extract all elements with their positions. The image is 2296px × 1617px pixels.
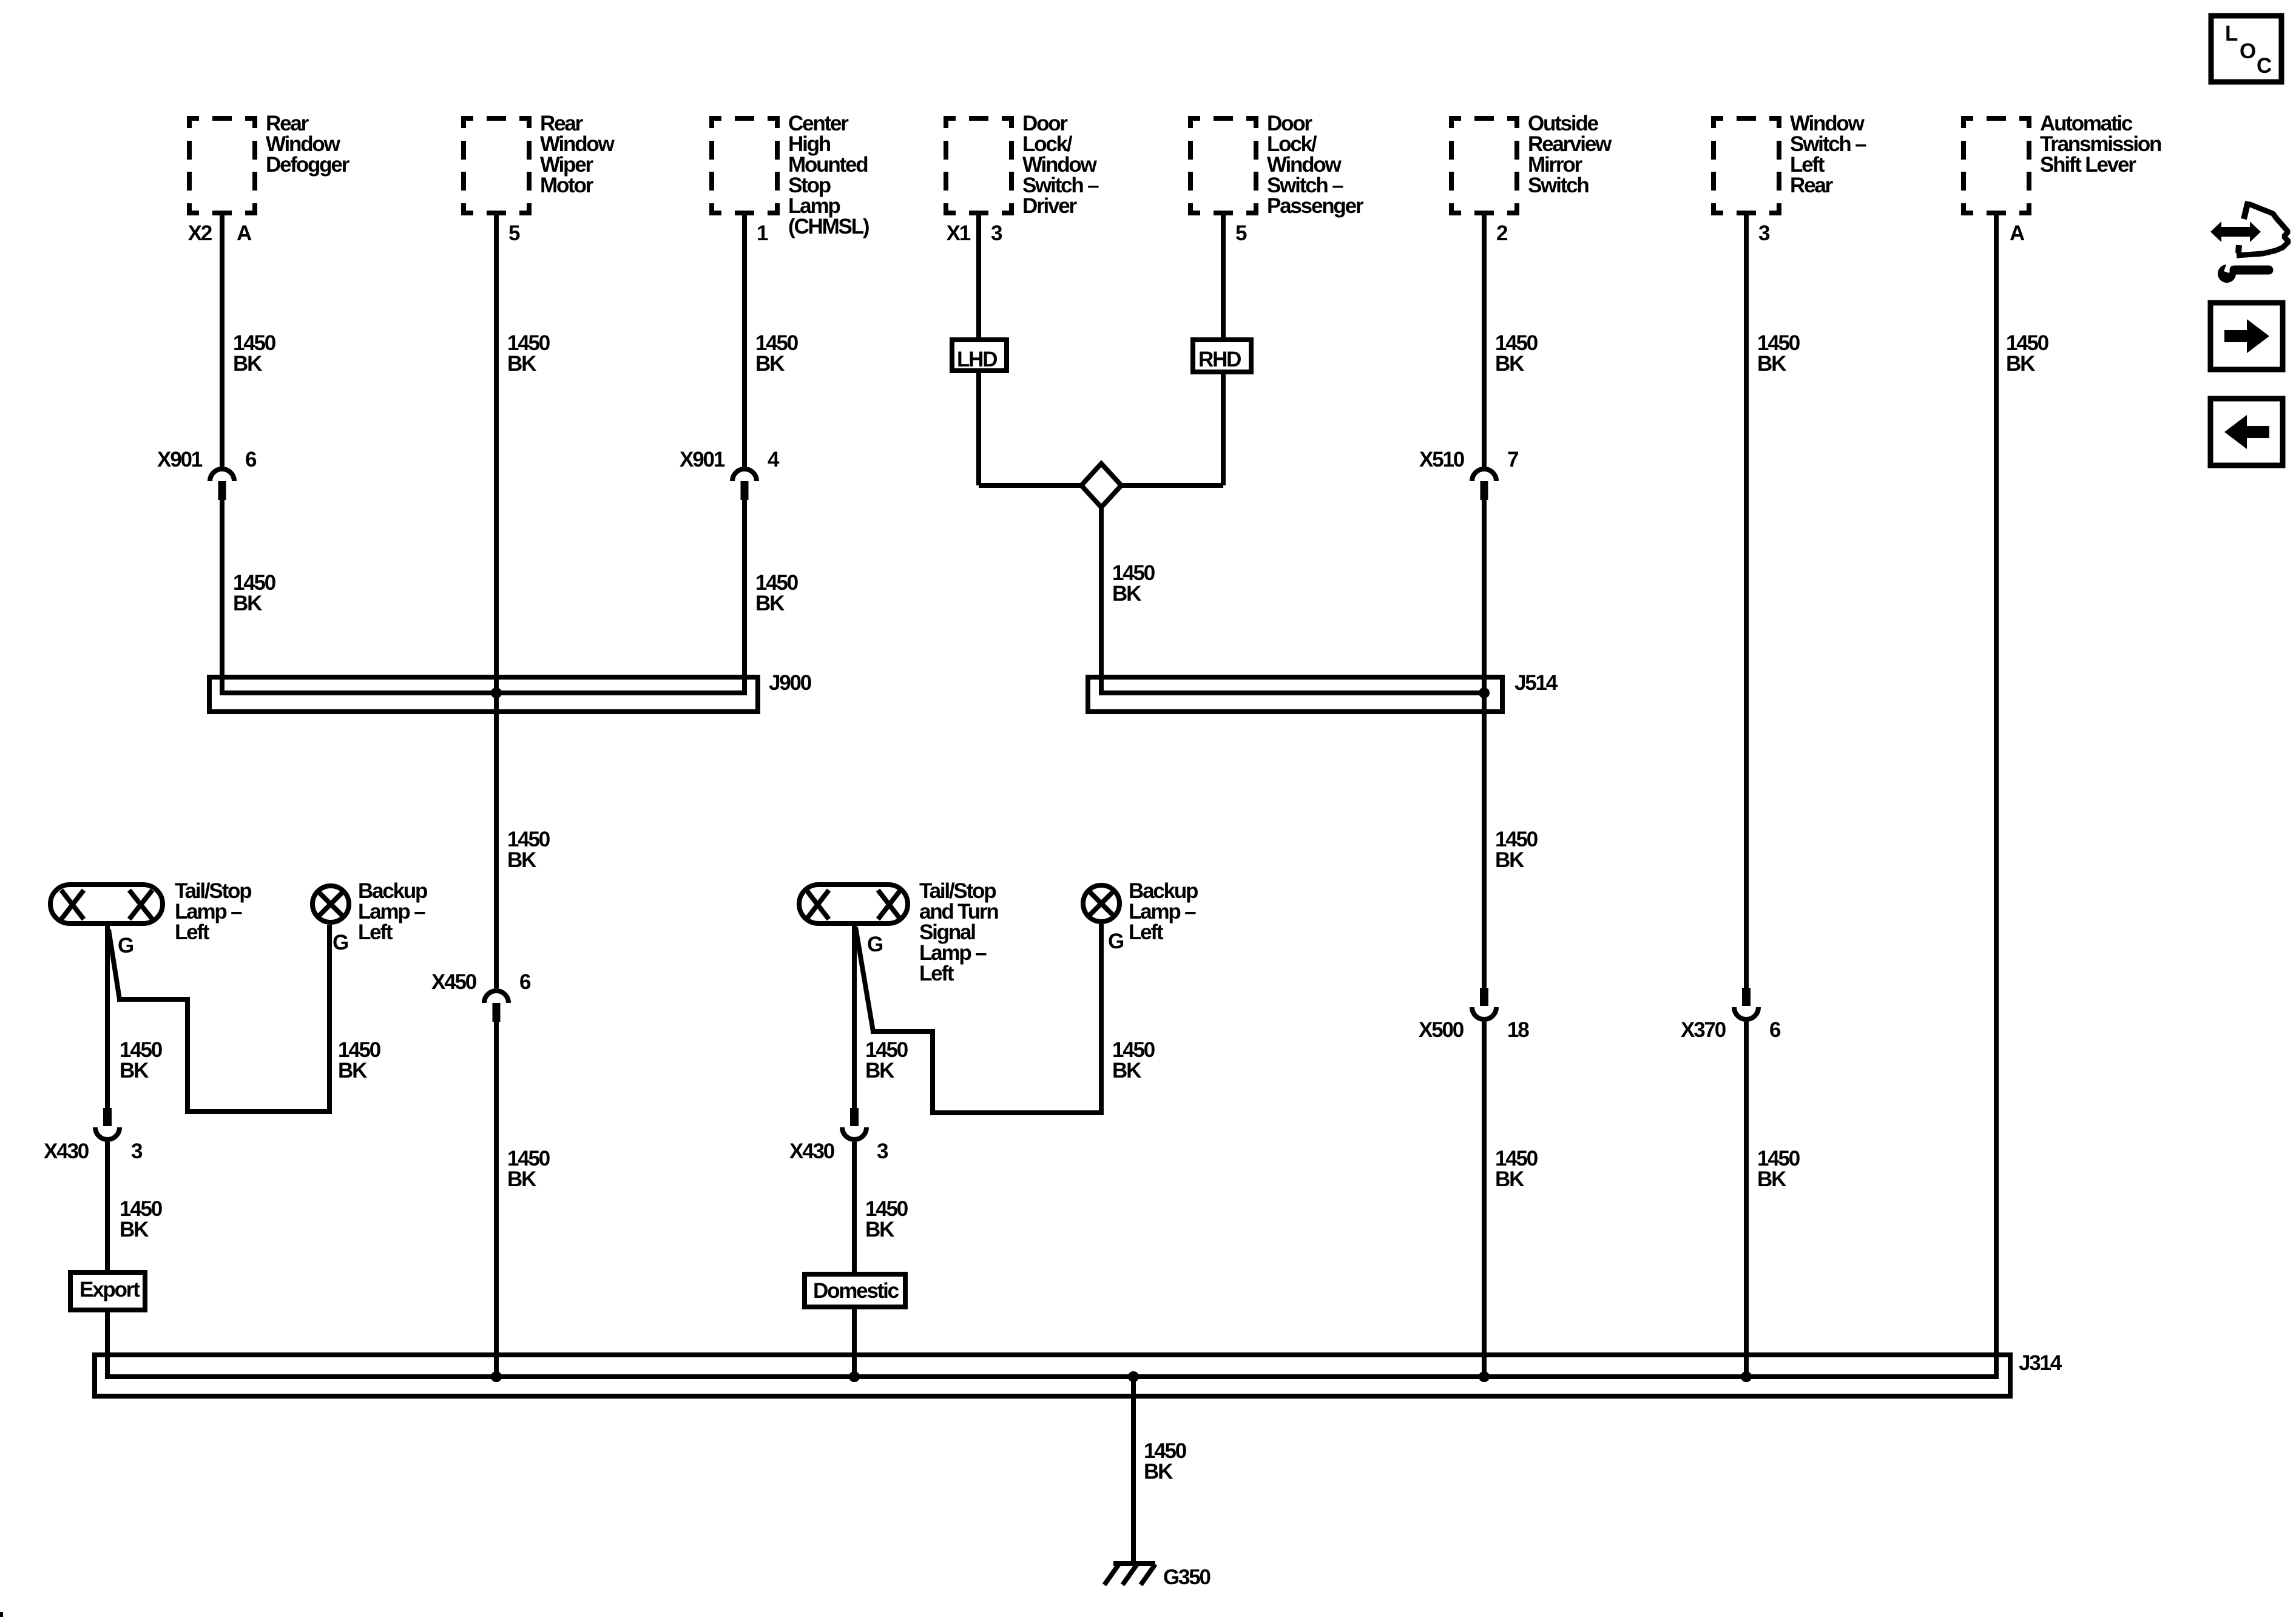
label: Outside Rearview Mirror Switch — [1528, 112, 1612, 197]
svg-text:Shift Lever: Shift Lever — [2040, 153, 2136, 177]
svg-text:5: 5 — [1235, 221, 1247, 245]
lamp: Backup Lamp - Left (domestic) — [1083, 885, 1119, 922]
wire: branch horizontal (domestic) — [871, 1029, 933, 1034]
wire: branch horizontal — [117, 997, 187, 1002]
splice pack J514 housing — [1088, 677, 1502, 712]
label: wire value 1450 BK (mirror lower) — [1495, 1147, 1538, 1191]
label: wire value 1450 BK (window sw) — [1757, 331, 1800, 376]
label: wire value 1450 BK (shift lever) — [2006, 331, 2049, 376]
connector X430 pin 3 (domestic) terminal pin — [850, 1108, 859, 1126]
wire: branch diagonal (domestic) — [856, 927, 873, 1031]
legend: back arrow box — [2210, 399, 2283, 465]
svg-text:A: A — [237, 221, 252, 245]
junction: mirror wire at J314 — [1479, 1371, 1490, 1382]
label: wire value 1450 BK (export lower) — [120, 1197, 163, 1241]
svg-text:BK: BK — [1495, 848, 1524, 872]
svg-text:Defogger: Defogger — [266, 153, 350, 177]
legend: LOC box — [2211, 16, 2281, 82]
connector X510 pin 7 terminal pin — [1481, 481, 1488, 500]
svg-text:Rear: Rear — [1790, 174, 1834, 197]
label: wire value 1450 BK (CHMSL) — [755, 331, 799, 376]
wire: 1450 BK from X450 to J314 — [494, 1022, 499, 1379]
component box: Rear Window Wiper Motor — [461, 116, 532, 215]
label: wire value 1450 BK (backup domestic) — [1112, 1038, 1155, 1082]
svg-text:X901: X901 — [157, 448, 203, 471]
connector X500 pin 18 terminal pin — [1480, 988, 1488, 1006]
component box: Door Lock/Window Switch - Passenger — [1188, 116, 1258, 215]
component box: Rear Window Defogger — [187, 116, 257, 215]
svg-text:Switch: Switch — [1528, 174, 1589, 197]
svg-text:X430: X430 — [789, 1139, 835, 1163]
svg-text:G350: G350 — [1163, 1565, 1211, 1589]
label: wire value 1450 BK (defogger lower) — [233, 571, 276, 615]
label: Door Lock/Window Switch Driver — [1022, 112, 1099, 218]
label: wire value 1450 BK (defogger) — [233, 331, 276, 376]
wire: 1450 BK from tail/turn lamp to X430 — [852, 925, 857, 1108]
option box Export — [70, 1272, 145, 1310]
svg-text:BK: BK — [507, 848, 536, 872]
svg-text:BK: BK — [1144, 1460, 1173, 1484]
wire: branch from tail lamp (diagonal) — [109, 930, 120, 999]
svg-text:G: G — [333, 931, 348, 954]
wire: 1450 BK below RHD — [1221, 372, 1226, 485]
svg-text:1: 1 — [757, 221, 768, 245]
svg-text:C: C — [2257, 54, 2272, 78]
wire: 1450 BK from window switch to X370 — [1744, 214, 1749, 988]
label: Backup Lamp - Left (domestic) — [1129, 879, 1198, 944]
svg-text:4: 4 — [768, 448, 780, 471]
component box: Outside Rearview Mirror Switch — [1449, 116, 1519, 215]
label: wire value 1450 BK (wiper mid) — [507, 828, 550, 872]
wire: 1450 BK to ground G350 — [1131, 1377, 1136, 1564]
junction: ground wire at J314 — [1128, 1371, 1139, 1382]
wire: 1450 BK below LHD — [976, 371, 981, 485]
svg-text:3: 3 — [877, 1139, 888, 1163]
option box Domestic — [805, 1274, 905, 1307]
svg-text:L: L — [2225, 22, 2238, 46]
connector X901 pin 4 terminal pin — [741, 481, 749, 500]
wire: 1450 BK from Export to J314 — [105, 1310, 110, 1379]
wire: 1450 BK from X901 to J900 — [220, 500, 225, 695]
svg-text:G: G — [867, 933, 883, 956]
junction: window switch wire at J314 — [1741, 1371, 1752, 1382]
svg-text:3: 3 — [1758, 221, 1770, 245]
label: wire value 1450 BK (tail lamp) — [120, 1038, 163, 1082]
svg-text:X430: X430 — [44, 1139, 89, 1163]
svg-text:(CHMSL): (CHMSL) — [788, 215, 869, 238]
wire: 1450 BK from backup lamp (domestic) — [1099, 924, 1104, 1115]
wire: 1450 BK from shift lever to J314 — [1994, 214, 1999, 1379]
svg-text:BK: BK — [755, 592, 785, 615]
option box RHD — [1193, 340, 1251, 372]
svg-text:Left: Left — [1129, 920, 1164, 944]
svg-text:Motor: Motor — [540, 174, 594, 197]
label: wire value 1450 BK (domestic lower) — [865, 1197, 908, 1241]
connector X901 pin 6 (female half) — [210, 469, 234, 481]
svg-text:BK: BK — [233, 592, 262, 615]
svg-text:BK: BK — [1495, 352, 1524, 376]
label: wire value 1450 BK (window sw lower) — [1757, 1147, 1800, 1191]
svg-text:BK: BK — [120, 1059, 149, 1082]
splice pack J900 housing — [209, 677, 758, 712]
option box LHD — [952, 340, 1007, 371]
connector X370 pin 6 (female half) — [1734, 1007, 1758, 1019]
junction: wiper wire at J900 — [491, 687, 502, 698]
wire: 1450 BK from X430 to Domestic — [852, 1142, 857, 1274]
label: wire value 1450 BK (mirror) — [1495, 331, 1538, 376]
svg-text:Domestic: Domestic — [813, 1279, 899, 1303]
lamp: Tail/Stop and Turn Signal Lamp - Left (dual filament) — [799, 885, 908, 923]
wire: 1450 BK from driver switch to LHD — [976, 214, 981, 337]
svg-text:6: 6 — [245, 448, 257, 471]
svg-text:RHD: RHD — [1198, 348, 1241, 371]
wire: branch horizontal to backup lamp — [185, 1109, 329, 1114]
svg-text:BK: BK — [2006, 352, 2035, 376]
junction: domestic wire at J314 — [849, 1371, 860, 1382]
label: Rear Window Defogger — [266, 112, 350, 177]
svg-text:Passenger: Passenger — [1267, 194, 1364, 218]
connector X430 pin 3 (domestic) (female half) — [842, 1127, 866, 1139]
label: Tail/Stop and Turn Signal Lamp - Left — [919, 879, 998, 985]
junction: wiper wire at J314 — [491, 1371, 502, 1382]
wire: 1450 BK from CHMSL to X901 — [742, 214, 747, 467]
page corner mark — [0, 1612, 3, 1617]
wire: 1450 BK from Domestic to J314 — [852, 1307, 857, 1379]
label: Automatic Transmission Shift Lever — [2040, 112, 2161, 177]
splice pack J314 housing — [95, 1355, 2010, 1396]
wire: 1450 BK to merge diamond (left) — [979, 483, 1084, 488]
lamp: Tail/Stop Lamp - Left (dual filament) — [50, 885, 163, 923]
label: Tail/Stop Lamp - Left — [175, 879, 251, 944]
svg-text:Export: Export — [79, 1278, 140, 1301]
wire: 1450 BK from mirror switch to X510 — [1482, 214, 1487, 467]
connector X430 pin 3 terminal pin — [103, 1108, 112, 1126]
svg-text:Left: Left — [919, 962, 954, 985]
wire: 1450 BK from X430 to Export — [105, 1142, 110, 1272]
svg-text:BK: BK — [1757, 352, 1786, 376]
label: Door Lock/Window Switch Passenger — [1267, 112, 1364, 218]
connector X430 pin 3 (female half) — [95, 1127, 120, 1139]
svg-text:G: G — [1108, 930, 1124, 953]
svg-text:X1: X1 — [947, 221, 971, 245]
legend: forward arrow box — [2210, 303, 2283, 370]
label: wire value 1450 BK (wiper) — [507, 331, 550, 376]
svg-text:X450: X450 — [431, 970, 477, 994]
svg-text:BK: BK — [865, 1059, 894, 1082]
svg-text:BK: BK — [338, 1059, 367, 1082]
connector X450 pin 6 (female half) — [484, 991, 508, 1003]
svg-text:BK: BK — [233, 352, 262, 376]
lamp: Backup Lamp - Left — [312, 886, 349, 922]
connector X450 pin 6 terminal pin — [493, 1003, 501, 1022]
svg-text:BK: BK — [1112, 1059, 1141, 1082]
label: Backup Lamp - Left — [358, 879, 427, 944]
merge symbol (diamond) — [1081, 464, 1121, 507]
svg-text:BK: BK — [1757, 1167, 1786, 1191]
svg-text:BK: BK — [120, 1218, 149, 1241]
wire: 1450 BK from X901 to J900 — [742, 500, 747, 695]
label: wire value 1450 BK (mirror mid) — [1495, 828, 1538, 872]
svg-text:J514: J514 — [1514, 671, 1558, 695]
label: Window Switch Left Rear — [1790, 112, 1866, 197]
svg-text:BK: BK — [1495, 1167, 1524, 1191]
svg-text:J314: J314 — [2019, 1351, 2062, 1375]
svg-text:BK: BK — [507, 352, 536, 376]
svg-text:BK: BK — [1112, 582, 1141, 606]
wire: branch vertical (domestic) — [930, 1029, 935, 1113]
wire: J900 internal bus — [220, 690, 747, 695]
connector X901 pin 4 (female half) — [732, 469, 757, 481]
label: wire value 1450 BK (tail/turn lamp) — [865, 1038, 908, 1082]
wire: 1450 BK to merge diamond (right) — [1119, 483, 1223, 488]
component box: Window Switch - Left Rear — [1711, 116, 1781, 215]
wire: 1450 BK from defogger to X901 — [220, 214, 225, 467]
label: wire value 1450 BK (ground wire) — [1144, 1439, 1187, 1484]
svg-text:BK: BK — [865, 1218, 894, 1241]
svg-text:7: 7 — [1507, 448, 1518, 471]
wire: branch vertical — [185, 997, 190, 1112]
component box: Automatic Transmission Shift Lever — [1961, 116, 2031, 215]
legend: adjust icon (double arrow, part outline, wrench) — [2210, 201, 2289, 283]
wire: J314 internal bus — [105, 1374, 1999, 1379]
wire: J514 internal bus — [1099, 690, 1484, 695]
svg-text:6: 6 — [1769, 1018, 1781, 1042]
label: Rear Window Wiper Motor — [540, 112, 615, 197]
wire: 1450 BK from X510 through J514 to X500 — [1482, 500, 1487, 988]
svg-text:18: 18 — [1507, 1018, 1529, 1042]
connector X500 pin 18 (female half) — [1472, 1007, 1496, 1019]
svg-text:X510: X510 — [1419, 448, 1465, 471]
label: wire value 1450 BK (CHMSL lower) — [755, 571, 799, 615]
svg-text:BK: BK — [507, 1167, 536, 1191]
wire: 1450 BK from passenger switch to RHD — [1221, 214, 1226, 337]
svg-text:O: O — [2240, 39, 2255, 63]
component box: Center High Mounted Stop Lamp (CHMSL) — [709, 116, 780, 215]
wire: 1450 BK from X500 to J314 — [1482, 1022, 1487, 1379]
wire: 1450 BK from X370 to J314 — [1744, 1022, 1749, 1379]
wire: 1450 BK from wiper motor through J900 to X450 — [494, 214, 499, 988]
svg-text:BK: BK — [755, 352, 785, 376]
wire: branch horizontal to backup lamp (domestic) — [930, 1110, 1101, 1115]
svg-text:LHD: LHD — [957, 348, 997, 371]
junction: mirror wire at J514 — [1479, 687, 1490, 698]
connector X370 pin 6 terminal pin — [1742, 988, 1751, 1006]
svg-text:5: 5 — [508, 221, 520, 245]
label: wire value 1450 BK (wiper lower) — [507, 1147, 550, 1191]
connector X510 pin 7 (female half) — [1472, 469, 1496, 481]
svg-text:3: 3 — [991, 221, 1002, 245]
svg-text:X2: X2 — [188, 221, 212, 245]
label: wire value 1450 BK (backup lamp) — [338, 1038, 381, 1082]
svg-text:Left: Left — [358, 920, 393, 944]
svg-text:2: 2 — [1496, 221, 1508, 245]
svg-text:A: A — [2010, 221, 2025, 245]
svg-text:Left: Left — [175, 920, 210, 944]
svg-text:3: 3 — [131, 1139, 143, 1163]
svg-text:6: 6 — [519, 970, 531, 994]
wire: 1450 BK from diamond to J514 — [1099, 507, 1104, 695]
ground G350 symbol — [1104, 1564, 1155, 1585]
svg-text:Driver: Driver — [1022, 194, 1078, 218]
label: CHMSL — [788, 112, 869, 238]
svg-text:X370: X370 — [1681, 1018, 1726, 1042]
svg-text:X901: X901 — [680, 448, 725, 471]
label: wire value 1450 BK (merged LHD/RHD) — [1112, 561, 1155, 606]
svg-text:X500: X500 — [1419, 1018, 1464, 1042]
wire: 1450 BK from tail lamp to X430 — [105, 926, 110, 1108]
svg-text:J900: J900 — [769, 671, 812, 695]
svg-text:G: G — [118, 934, 133, 957]
wire: 1450 BK from backup lamp — [327, 925, 332, 1114]
connector X901 pin 6 terminal pin — [218, 481, 226, 500]
component box: Door Lock/Window Switch - Driver — [944, 116, 1014, 215]
